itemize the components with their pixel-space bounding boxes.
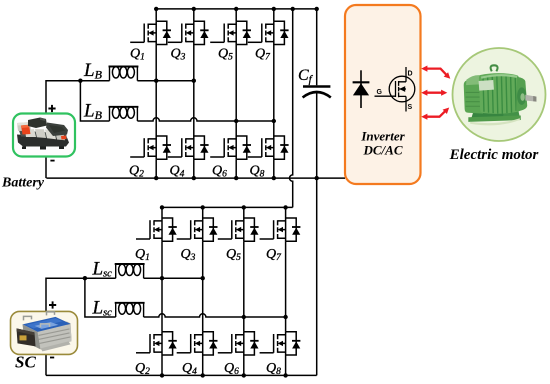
node DC+ bus / Cf junction [315,7,319,11]
svg-text:Q5: Q5 [226,247,241,263]
SC box frame [11,311,78,354]
wire leg4 source segment [273,159,275,178]
node SC DC- bus / Q8 source junction [283,373,287,377]
wire phase2 branch drop [80,81,109,121]
node SC phase2 / leg3 midpoint junction [242,315,246,319]
inductor Lsc2 [115,303,145,317]
cover dark top-center [28,118,47,129]
transistor Q6 (SC) [218,332,259,355]
wire DC+ drop to SC converter with hop [290,9,293,208]
eye bolt [491,65,498,71]
transistor Q8 [248,136,289,159]
feet [22,147,26,150]
svg-text:Cf: Cf [298,67,314,86]
inductor LB2 [109,107,139,121]
transistor Q1 (SC) [136,218,177,241]
node DC+ bus / SC-converter feed junction [291,7,295,11]
wire leg3 drain drop [243,207,245,218]
right end face [56,317,72,344]
electric motor circle [453,48,546,141]
wire leg3 mid segment [235,45,237,137]
transistor Q3 [168,21,209,44]
diode D1 (inverter) [353,70,370,108]
wire leg1 mid segment [155,45,157,137]
svg-text:SC: SC [15,353,36,372]
base feet [41,341,71,351]
wire leg2 drain drop [202,207,204,218]
node SC phase1 / leg1 midpoint junction [160,276,164,280]
shadow under [470,118,520,125]
wire battery plus lead [46,81,80,114]
left face [23,324,41,349]
inductor LB1 [109,67,139,81]
arrow inverter-motor 2 [421,90,447,96]
node SC DC- bus / Q4 source junction [201,373,205,377]
svg-text:Q1: Q1 [135,247,150,263]
wire leg2 drain drop [193,9,195,21]
node SC phase1 / leg2 midpoint junction [201,276,205,280]
wire leg4 drain drop [285,207,287,218]
node phase1 / leg1 midpoint junction [154,79,158,83]
feet [471,110,504,119]
wire phase1 to coil [80,80,109,82]
wire phase1 midpoint line [144,277,203,279]
shaft [525,95,536,102]
wire leg1 source segment [161,355,163,375]
main finned body [479,73,521,114]
svg-text:LB: LB [83,101,103,123]
transistor Q3 (SC) [177,218,218,241]
wire leg3 mid segment [243,241,245,332]
inductor Lsc1 [115,264,145,278]
wire leg4 source segment [285,355,287,375]
wire leg1 mid segment [161,241,163,332]
transistor Q2 [130,136,171,159]
red block left [21,125,31,135]
svg-text:Electric motor: Electric motor [449,147,539,163]
wire battery minus lead [45,156,47,178]
transistor Q7 [248,21,289,44]
node SC DC+ bus / Q5 drain junction [242,205,246,209]
handles [24,312,55,321]
label SC minus [50,357,54,359]
wire leg3 source segment [243,355,245,375]
svg-text:Q6: Q6 [212,163,227,179]
blue top [23,317,71,332]
svg-text:DC/AC: DC/AC [362,143,402,158]
wire SC minus lead [45,354,47,375]
node SC phase split junction [83,276,87,280]
wire leg3 source segment [235,159,237,178]
small red right [61,136,67,140]
node SC DC+ bus / Q1 drain junction [160,205,164,209]
node phase1 / leg2 midpoint junction [192,79,196,83]
battery box frame [13,114,75,157]
svg-text:Q3: Q3 [171,47,186,63]
svg-text:Lsc: Lsc [92,298,113,319]
transistor Q5 (SC) [218,218,259,241]
node SC DC+ bus / Q7 drain junction [283,205,287,209]
transistor Q5 [210,21,251,44]
transistor Q1 [130,21,171,44]
wire leg2 source segment [202,355,204,375]
cover dark right [46,123,68,137]
node DC- bus / Q4 source junction [192,176,196,180]
arrow inverter-motor 1 [421,66,450,79]
node DC+ bus / Q1 drain junction [154,7,158,11]
end bell right [516,77,527,112]
svg-text:G: G [377,89,383,96]
deck mid [19,131,67,139]
wire leg3 drain drop [235,9,237,21]
left fan cover block [464,76,484,114]
wire SC bottom bus [46,374,317,376]
wire DC- bottom bus [46,177,345,179]
label battery minus [50,160,54,162]
back-left light cells [17,122,31,131]
svg-text:D: D [408,71,413,78]
electric motor body [464,65,537,125]
svg-text:Q1: Q1 [130,47,145,63]
svg-text:Q8: Q8 [266,361,281,377]
svg-text:Q7: Q7 [266,247,282,263]
wire phase1 midpoint line [137,80,193,82]
svg-text:Q4: Q4 [182,361,197,377]
wire phase2 branch drop [85,278,116,317]
wire leg4 mid segment [273,45,275,137]
svg-text:Q7: Q7 [255,47,271,63]
inverter block U1 [345,5,421,184]
node SC DC+ bus / Q3 drain junction [201,205,205,209]
wire SC top bus [162,206,293,208]
node DC- bus / Q6 source junction [234,176,238,180]
svg-text:Q2: Q2 [135,361,150,377]
node battery phase split junction [78,79,82,83]
arrow inverter-motor 3 [421,108,449,120]
svg-text:LB: LB [83,60,103,82]
wire phase2 midpoint line with hops [137,118,273,121]
node phase2 / leg3 midpoint junction [234,119,238,123]
wire leg1 drain drop [161,207,163,218]
nameplate [479,80,494,91]
svg-text:S: S [408,104,413,111]
wire SC plus lead [46,278,85,311]
wire top DC+ bus [156,8,317,10]
wire leg2 mid segment [193,45,195,137]
op-amp U1 mosfet in circle [375,67,415,112]
wire leg2 source segment [193,159,195,178]
transistor Q6 [210,136,251,159]
svg-text:Q4: Q4 [170,163,185,179]
node SC DC- bus / Q6 source junction [242,373,246,377]
tray bottom [17,135,69,147]
node DC+ bus / Q5 drain junction [234,7,238,11]
capacitor Cf [303,9,331,376]
transistor Q7 (SC) [260,218,301,241]
svg-text:Lsc: Lsc [92,259,113,280]
svg-text:Q6: Q6 [224,361,239,377]
svg-text:Battery: Battery [1,176,45,191]
wire leg4 mid segment [285,241,287,332]
transistor Q8 (SC) [260,332,301,355]
node DC- bus / Cf junction [315,176,319,180]
transistor Q2 (SC) [136,332,177,355]
wire leg1 drain drop [155,9,157,21]
svg-text:Q3: Q3 [181,247,196,263]
dark connector box front-left [17,328,36,346]
svg-text:Q2: Q2 [129,163,144,179]
wire leg1 source segment [155,159,157,178]
wire phase2 midpoint line with hops [144,314,286,317]
wire phase1 to coil [85,277,116,279]
node DC- bus / Q8 source junction [272,176,276,180]
wire leg4 drain drop [273,9,275,21]
node DC+ bus / Q7 drain junction [272,7,276,11]
node SC DC- bus / Q2 source junction [160,373,164,377]
center cells row light [25,129,36,137]
node phase2 / leg4 midpoint junction [272,119,276,123]
front face silver [37,324,72,349]
svg-text:Q5: Q5 [218,47,233,63]
svg-text:Q8: Q8 [250,163,265,179]
transistor Q4 (SC) [177,332,218,355]
svg-text:Inverter: Inverter [360,129,405,144]
node DC+ bus / Q3 drain junction [192,7,196,11]
node SC phase2 / leg4 midpoint junction [283,315,287,319]
label battery plus [48,105,55,112]
transistor Q4 [168,136,209,159]
node DC- bus / Q2 source junction [154,176,158,180]
label SC plus [49,301,56,308]
wire leg2 mid segment [202,241,204,332]
